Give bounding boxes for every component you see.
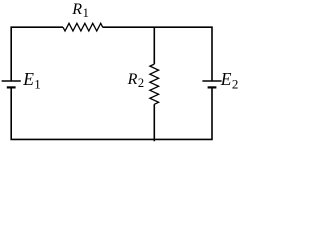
- svg-text:R1: R1: [71, 1, 89, 20]
- svg-text:E1: E1: [22, 69, 41, 91]
- svg-text:E2: E2: [220, 69, 239, 91]
- svg-text:R2: R2: [127, 71, 145, 90]
